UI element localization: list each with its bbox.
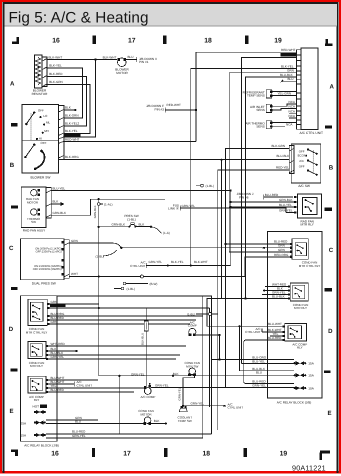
blower switch position labels <box>38 109 51 146</box>
svg-text:C: C <box>9 245 14 252</box>
a/c comp relay label <box>29 395 44 402</box>
wire GRN-YEL rad fan relay <box>286 212 294 214</box>
svg-text:GRN: GRN <box>71 239 78 243</box>
svg-text:(1-BL): (1-BL) <box>127 287 135 291</box>
svg-text:LO: LO <box>43 114 48 118</box>
svg-text:BLU-RED: BLU-RED <box>51 388 65 392</box>
wire GRN2 ctrl relay right <box>229 251 290 253</box>
svg-text:(1-BL): (1-BL) <box>187 312 195 316</box>
wire BLU-BLK mtr relay <box>48 354 180 356</box>
svg-text:RED-WHT: RED-WHT <box>167 103 182 107</box>
rad fan assy <box>21 187 46 228</box>
svg-text:BLK: BLK <box>154 419 160 423</box>
svg-text:BLK-GRN: BLK-GRN <box>49 80 63 84</box>
svg-text:15A: 15A <box>21 434 27 438</box>
wires air thermo sens <box>273 123 297 127</box>
blower resistor <box>34 55 41 88</box>
wire BLK-WHT label at switch <box>64 133 80 137</box>
svg-text:CTRL UNIT: CTRL UNIT <box>245 330 261 334</box>
wire to pres sw <box>99 226 130 228</box>
svg-text:GRN-BLK: GRN-BLK <box>93 205 97 218</box>
connector tag (1-BL) comp <box>196 313 208 315</box>
svg-text:BLOWER SW: BLOWER SW <box>31 175 51 179</box>
svg-text:GRN-BLK: GRN-BLK <box>112 222 126 226</box>
svg-text:PIN #6: PIN #6 <box>239 195 249 199</box>
svg-text:BLK-RED: BLK-RED <box>49 72 63 76</box>
a/c switch contact dots <box>305 148 318 176</box>
wire long feed down middle <box>57 296 212 434</box>
relay K5 pins <box>290 243 292 258</box>
wire BLU-BLK fuse2 <box>240 370 294 372</box>
wire BLU-WHT branch to comp relay <box>207 299 285 327</box>
wire GRN-BLK rad fan relay <box>231 201 294 203</box>
wire BLU-ORG ctrl relay <box>50 315 203 317</box>
node pres sw splice <box>150 226 152 228</box>
svg-text:15A: 15A <box>308 362 314 366</box>
svg-text:OFF: OFF <box>38 109 44 113</box>
svg-text:(1-A): (1-A) <box>163 231 170 235</box>
wire riser BLU-YEL down <box>230 191 232 266</box>
rad fan relay pins <box>294 196 296 214</box>
svg-text:BLK-YEL2: BLK-YEL2 <box>65 122 80 126</box>
wire BLU-RED to rad fan relay <box>264 195 293 200</box>
wire BLU-RED ctrl relay <box>50 319 197 321</box>
svg-text:A/C SW: A/C SW <box>298 184 311 188</box>
cond fan mtr sw <box>184 361 200 376</box>
NCA stubs <box>289 100 297 118</box>
svg-text:(1-BL): (1-BL) <box>127 217 136 221</box>
relay K7 pins <box>282 325 284 341</box>
svg-text:WHT-RED: WHT-RED <box>51 342 66 346</box>
wire BLK mtr relay right <box>264 290 288 292</box>
svg-text:B: B <box>329 164 334 171</box>
a/c relay block (j/b) left <box>21 296 58 442</box>
svg-text:D: D <box>9 326 14 333</box>
svg-text:BLK-WHT: BLK-WHT <box>103 55 117 59</box>
svg-text:E: E <box>327 410 331 417</box>
wire BLU-BLK a/c sw riser to relay <box>222 298 290 300</box>
blower resistor connector pins <box>42 57 47 87</box>
compressor clutch A/C COMP main <box>141 383 156 399</box>
svg-text:OFF:235KPa (2.4PG): OFF:235KPa (2.4PG) <box>36 251 62 254</box>
svg-text:GRN-YEL: GRN-YEL <box>252 383 266 387</box>
svg-text:GRN-YEL: GRN-YEL <box>182 204 196 208</box>
svg-text:BLU: BLU <box>75 420 81 424</box>
wire BLU with connector diamond <box>284 80 297 82</box>
svg-text:MTR RLY: MTR RLY <box>301 223 314 227</box>
wire BLU-ORG fuse1 feed <box>212 359 294 361</box>
svg-text:RESISTOR: RESISTOR <box>32 92 49 96</box>
wire BLU-RED comp relay <box>48 391 134 393</box>
wire BLU-RED comp relay right via corner riser <box>244 340 294 384</box>
wire BLK-YEL GRN-YEL splice run to riser <box>146 263 230 268</box>
wire BLK-ORG blower switch to A/C SW <box>64 159 290 161</box>
svg-text:A/C: A/C <box>299 159 304 163</box>
wire BLU-YEL rad fan <box>51 190 231 192</box>
connector tag J/B DOWN II PIN #1 <box>139 57 157 64</box>
svg-text:RED-ORG: RED-ORG <box>274 253 289 257</box>
top grid ticks <box>93 35 249 44</box>
wire RED-YEL to fuse column <box>242 58 297 364</box>
svg-text:HOT: HOT <box>33 405 40 409</box>
connector on WHT wire <box>141 275 144 278</box>
svg-text:BLK: BLK <box>139 222 145 226</box>
svg-text:BLU: BLU <box>256 370 262 374</box>
svg-text:SW: SW <box>31 220 36 224</box>
relay K4 pin squares <box>46 379 48 393</box>
left row letters <box>9 81 15 415</box>
svg-text:BLU-RED: BLU-RED <box>265 193 279 197</box>
dual pres sw connector pins <box>62 240 70 279</box>
svg-text:18: 18 <box>203 451 211 458</box>
svg-text:BLK-WHT: BLK-WHT <box>49 55 63 59</box>
svg-text:CTRL UNIT: CTRL UNIT <box>228 406 244 410</box>
svg-text:GRN-BLK: GRN-BLK <box>53 211 67 215</box>
svg-text:RAD FAN ASSY: RAD FAN ASSY <box>23 229 45 233</box>
wire BLU-YEL ctrl relay (to GRN run) <box>50 307 99 309</box>
cond fan mtr relay label <box>29 361 45 368</box>
svg-text:DUAL PRES SW: DUAL PRES SW <box>32 282 56 286</box>
crop mark bottom-left <box>11 450 18 456</box>
svg-text:A/C RELAY BLOCK (J/B): A/C RELAY BLOCK (J/B) <box>277 401 312 405</box>
svg-text:ECON: ECON <box>298 154 306 158</box>
svg-text:A: A <box>329 84 334 91</box>
svg-text:OFF: OFF <box>41 141 47 145</box>
svg-text:BLU-BLK: BLU-BLK <box>272 295 285 299</box>
svg-text:A/C COMP: A/C COMP <box>141 395 156 399</box>
rad fan motor <box>26 189 40 204</box>
svg-text:NCA: NCA <box>289 114 296 118</box>
relay K2 pin squares <box>47 303 49 325</box>
svg-text:BLK-GRN: BLK-GRN <box>65 114 79 118</box>
svg-text:BLU-YEL: BLU-YEL <box>252 359 265 363</box>
svg-text:TEMP SENS: TEMP SENS <box>247 94 265 98</box>
svg-text:(1-AL): (1-AL) <box>104 202 112 206</box>
wire GRN-YEL coolant sw to a/c ctrl unit tag <box>183 406 221 408</box>
fuse F1 right 15A <box>294 361 315 366</box>
wire GRN-YEL mtr relay <box>48 358 176 360</box>
dual pressure switch <box>21 239 65 280</box>
svg-text:E: E <box>9 408 13 415</box>
connector tag (B-W) <box>126 283 148 285</box>
wire BLK-RED loop <box>47 77 87 127</box>
svg-text:NCA: NCA <box>289 105 296 109</box>
svg-text:BLU-YEL: BLU-YEL <box>53 186 66 190</box>
fuse 15A <box>21 433 46 438</box>
cond fan mtr relay right label <box>293 303 309 310</box>
wire cond fan sw down to coolant temp sw <box>183 376 194 406</box>
svg-text:BLK: BLK <box>65 106 71 110</box>
svg-text:C: C <box>329 247 334 254</box>
svg-text:GRN-YEL: GRN-YEL <box>131 372 145 376</box>
wire WHT dual pres to relay <box>69 257 292 277</box>
svg-text:RED-WHT: RED-WHT <box>281 48 296 52</box>
svg-text:GRN-YEL: GRN-YEL <box>155 383 169 387</box>
svg-text:GRN-YEL: GRN-YEL <box>178 387 182 400</box>
wire BLU-BLK a/c switch <box>222 160 290 299</box>
wire BLK-YEL loop <box>47 68 83 118</box>
wire BLK mtr relay <box>48 350 76 352</box>
wire riser to fuse BLU-RED run <box>118 376 120 434</box>
a/c control unit U1 <box>297 48 319 129</box>
svg-text:CTRL UNIT: CTRL UNIT <box>130 264 146 268</box>
wire BLK-YEL unit to splice <box>191 69 297 266</box>
svg-text:GRN-YEL: GRN-YEL <box>272 290 286 294</box>
svg-text:16: 16 <box>51 451 59 458</box>
svg-text:(1-BL): (1-BL) <box>96 255 104 259</box>
fuse F3 right 10A <box>294 386 315 391</box>
svg-text:TEMP SW: TEMP SW <box>178 419 192 423</box>
cond fan mtr relay K3 <box>28 342 46 359</box>
svg-text:OFF:2300KPA (26MPG): OFF:2300KPA (26MPG) <box>33 268 62 271</box>
svg-text:18: 18 <box>204 38 212 45</box>
J/B CONN J PIN #6 tag <box>237 192 254 199</box>
svg-text:BLU-BLK: BLU-BLK <box>277 154 290 158</box>
connector tag (1-AL) <box>97 203 100 206</box>
svg-text:BLK-WHT: BLK-WHT <box>65 133 79 137</box>
air inlet sensor <box>250 104 273 112</box>
svg-text:BLK: BLK <box>53 200 59 204</box>
wire GRN-YEL mtr relay right <box>262 294 288 296</box>
right half-row dashes <box>324 126 332 374</box>
svg-text:YEL-GRN: YEL-GRN <box>278 91 292 95</box>
wire comp to riser <box>196 334 220 336</box>
svg-text:WHT: WHT <box>71 272 78 276</box>
wire BLK from switch <box>64 109 75 111</box>
a/c relay block (j/b) right <box>268 232 322 399</box>
wire WHT-RED mtr relay right <box>265 286 288 288</box>
relay K3 pin squares <box>46 345 48 360</box>
svg-text:GRN-BLK: GRN-BLK <box>279 198 293 202</box>
blower switch connector pins <box>59 106 65 160</box>
crop mark top-right <box>325 39 332 45</box>
a/c switch position labels <box>298 149 306 168</box>
node J/B RED-WHT junction <box>195 109 197 111</box>
svg-text:BLK-YEL: BLK-YEL <box>49 64 62 68</box>
svg-text:MH: MH <box>44 129 49 133</box>
wire BLU fuse 25A to cond fan motor <box>46 423 145 425</box>
fuse F0 <box>34 410 46 414</box>
node WHT vertical T <box>98 275 100 277</box>
svg-text:15A: 15A <box>308 374 314 378</box>
wire BLU-YEL rad fan relay <box>231 206 294 208</box>
svg-text:BLU: BLU <box>128 55 134 59</box>
svg-text:NCA: NCA <box>289 100 296 104</box>
blower motor <box>117 55 137 66</box>
svg-text:HI: HI <box>39 137 42 141</box>
svg-text:BLU-WHT: BLU-WHT <box>268 322 282 326</box>
wire RED-WHT blower switch to J/B <box>64 141 196 143</box>
svg-text:10A: 10A <box>308 387 314 391</box>
refrigerant temp sensor <box>243 90 273 98</box>
riser to fuse feed <box>218 335 220 360</box>
svg-text:GRN-YEL: GRN-YEL <box>51 355 65 359</box>
wire GRN dual pres merge <box>69 243 121 248</box>
air thermo sensor <box>245 121 272 129</box>
svg-text:GRN-YEL: GRN-YEL <box>191 402 205 406</box>
cond fan mtr relay K6 (right) <box>290 283 308 301</box>
wire BLU-YEL fuse1 <box>242 363 294 365</box>
svg-text:COMP: COMP <box>188 324 197 328</box>
thermo sw in rad fan assy <box>27 209 41 224</box>
wire refrigerant sens to unit <box>273 92 297 96</box>
wire GRN fuse 25A <box>46 419 98 421</box>
wire RED-WHT J/B riser <box>166 52 297 110</box>
wire BLK pres sw to splice <box>136 226 152 228</box>
bottom grid numbers <box>51 451 287 458</box>
svg-text:19: 19 <box>280 451 288 458</box>
svg-text:SENS: SENS <box>256 125 264 129</box>
left half-row dashes <box>11 123 18 371</box>
cond fan mtr ctrl relay label <box>26 327 48 334</box>
svg-text:BLK-WHT: BLK-WHT <box>194 260 208 264</box>
bottom grid ticks <box>92 448 247 457</box>
svg-text:BLU-YEL: BLU-YEL <box>279 203 292 207</box>
wire BLU-WHT comp relay <box>48 379 98 381</box>
svg-text:(B-W): (B-W) <box>150 282 158 286</box>
connector tag (1-BL) left <box>114 288 121 290</box>
wire BLK-GRN a/c switch <box>226 149 290 388</box>
node BLK splice <box>74 109 76 111</box>
coolant temp sw <box>178 406 193 423</box>
crop mark top-left <box>12 37 19 44</box>
svg-text:19: 19 <box>274 38 282 45</box>
svg-text:25A: 25A <box>21 421 27 425</box>
wire BLK-WHT junction down to switch <box>64 60 96 138</box>
svg-text:MOTOR: MOTOR <box>27 200 39 204</box>
crop mark bottom-right <box>320 452 330 460</box>
svg-text:OFF: OFF <box>299 165 305 169</box>
svg-text:MTR RLY: MTR RLY <box>30 364 43 368</box>
right row letters <box>327 84 334 418</box>
svg-text:D: D <box>328 328 333 335</box>
svg-text:BLU-YEL: BLU-YEL <box>51 304 64 308</box>
a/c switch S2 <box>289 144 320 183</box>
svg-text:PIN #3: PIN #3 <box>155 107 165 111</box>
fusible link tag FUS LINK <box>168 203 179 210</box>
wire GRN ctrl relay <box>50 303 99 305</box>
cond fan motor M2 <box>138 409 154 425</box>
node blower feed junction <box>94 58 96 60</box>
svg-text:BLK-BLU: BLK-BLU <box>140 333 144 345</box>
svg-text:RED-YEL: RED-YEL <box>276 165 290 169</box>
node BLU-YEL riser top <box>230 190 232 192</box>
svg-text:BLK-YEL: BLK-YEL <box>171 260 184 264</box>
wire BLU-RED fuse 15A <box>46 433 212 435</box>
wire GRN unit down to relay <box>229 73 296 252</box>
wire GRN to cond fan ctrl relay with connector arrow <box>121 247 261 249</box>
svg-text:GRN: GRN <box>278 248 285 252</box>
ctrl relay (right) label <box>299 261 321 268</box>
svg-text:MTR CTRL RLY: MTR CTRL RLY <box>26 330 48 334</box>
wire RED-WHT riser continue to switch feed <box>195 110 197 142</box>
wire YEL-GRN unit pin stub <box>273 95 297 97</box>
svg-text:GRN-YEL: GRN-YEL <box>149 260 163 264</box>
wire GRN2 ctrl relay <box>50 323 191 325</box>
wire BLK with ground arrow <box>51 203 60 205</box>
blower motor label <box>115 68 129 75</box>
svg-text:GRN: GRN <box>51 320 58 324</box>
svg-text:Fig 5: A/C & Heating: Fig 5: A/C & Heating <box>9 10 149 27</box>
wire YEL comp relay to compressor <box>48 387 145 389</box>
svg-text:CTRL UNIT: CTRL UNIT <box>77 383 93 387</box>
svg-text:BLK-GRN: BLK-GRN <box>272 144 286 148</box>
svg-text:A/C RELAY BLOCK (J/B): A/C RELAY BLOCK (J/B) <box>24 444 59 448</box>
pres sw inline symbol <box>129 223 137 228</box>
svg-text:A/C CTRL UNIT: A/C CTRL UNIT <box>300 131 324 135</box>
svg-text:RLY: RLY <box>297 346 303 350</box>
svg-text:SENS: SENS <box>256 108 264 112</box>
a/c comp relay K7 (right) <box>285 323 307 341</box>
svg-text:ML: ML <box>46 121 50 125</box>
svg-text:PIN #1: PIN #1 <box>139 60 149 64</box>
wire RED-YEL a/c switch <box>218 170 290 430</box>
wire BLK cond fan motor <box>151 423 166 425</box>
vertical BLK-BLU with fusible link <box>145 308 147 388</box>
node BLU-WHT crossing <box>239 325 241 327</box>
branch curve (1-A) <box>151 227 162 234</box>
svg-text:NCA: NCA <box>289 109 296 113</box>
wire GRN-BLK rad fan up and over <box>51 199 165 215</box>
svg-text:17: 17 <box>128 38 136 45</box>
wire WHT-RED mtr relay <box>48 345 186 347</box>
cond fan mtr ctrl relay K5 (right) <box>292 239 308 260</box>
node GRN merge <box>120 247 122 249</box>
blower switch contact dots <box>24 111 45 170</box>
wire BLK-GRN loop <box>47 85 90 134</box>
blower resistor label <box>32 89 49 96</box>
svg-text:(1-BL): (1-BL) <box>206 184 214 188</box>
wire BLK-WHT comp relay right from ctrl unit tag <box>262 329 282 332</box>
svg-text:GRN-YEL: GRN-YEL <box>279 208 293 212</box>
svg-text:17: 17 <box>123 451 131 458</box>
connector tag (1-BL) upper <box>196 185 200 187</box>
svg-text:LINK Ⓐ: LINK Ⓐ <box>168 207 179 211</box>
wire GRN-YEL to cond fan mtr sw <box>99 375 294 377</box>
compressor clutch A/C COMP (1-BL variant) <box>188 320 197 336</box>
pres sw label <box>124 214 138 221</box>
svg-text:BLK-ORG: BLK-ORG <box>65 155 79 159</box>
svg-text:BLU-RED: BLU-RED <box>268 336 282 340</box>
cond fan mtr ctrl relay K2 <box>28 299 47 325</box>
wire YEL comp relay right <box>270 335 282 337</box>
svg-text:BLU: BLU <box>288 77 294 81</box>
top grid numbers <box>52 38 282 45</box>
relay K6 pins <box>288 285 290 299</box>
connector tag J/B DOWN F PIN #3 <box>146 104 164 111</box>
blower switch <box>22 105 59 174</box>
wire GRN-BLK riser down <box>98 199 100 376</box>
wire GRN-YEL comp to fuse3 <box>151 387 294 389</box>
branch tag (1-B) <box>103 250 117 256</box>
svg-text:16: 16 <box>52 38 60 45</box>
svg-text:90A11221: 90A11221 <box>292 463 326 472</box>
svg-text:MTR RLY: MTR RLY <box>294 306 307 310</box>
wire BLU-RED ctrl relay right <box>226 243 291 245</box>
svg-text:GRN-YEL: GRN-YEL <box>72 434 86 438</box>
title bar <box>4 4 337 26</box>
fuse F2 right 15A <box>294 373 315 378</box>
wires air inlet sens <box>273 104 297 110</box>
rad fan relay label <box>301 219 314 226</box>
svg-text:MOTOR: MOTOR <box>140 412 152 416</box>
svg-text:RLY: RLY <box>34 398 40 402</box>
svg-text:RED-YEL: RED-YEL <box>281 53 295 57</box>
fuse 25A <box>21 421 46 426</box>
wire GRN branch to riser <box>99 308 210 407</box>
svg-text:B: B <box>10 162 15 169</box>
wire GRN-YEL fuse 15A <box>46 296 203 438</box>
